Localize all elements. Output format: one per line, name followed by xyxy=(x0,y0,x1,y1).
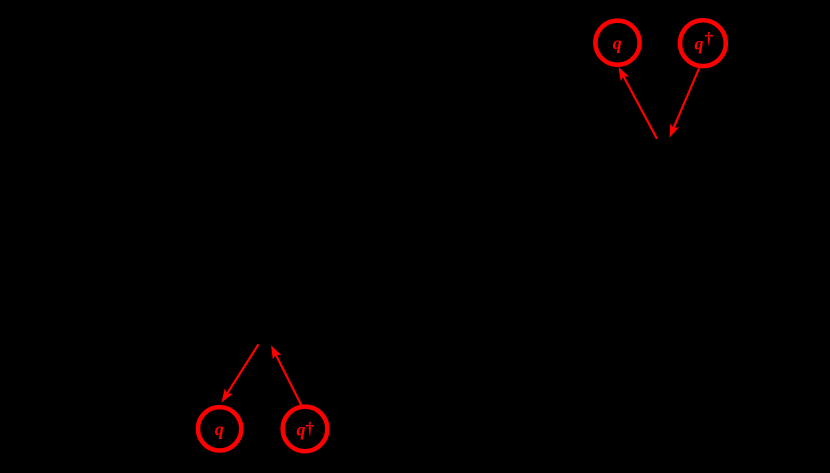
svg-text:†: † xyxy=(705,29,714,48)
arrowhead at q circle (bottom-left group) xyxy=(222,389,233,403)
label q-dagger (bottom-left group) xyxy=(297,419,315,439)
circle around q (bottom-left group) xyxy=(198,407,241,450)
arrow line from q-dagger circle to equation vertex (top-right group) xyxy=(673,69,699,131)
arrow line from equation vertex to q circle (bottom-left group) xyxy=(226,344,259,395)
svg-text:q: q xyxy=(297,419,306,439)
arrow line from q-dagger circle to equation vertex (bottom-left group) xyxy=(275,353,302,406)
svg-text:†: † xyxy=(306,419,315,438)
circle around q-dagger (top-right group) xyxy=(680,20,726,66)
arrowhead at equation vertex (top-right group) xyxy=(669,124,679,138)
arrowhead at equation vertex (bottom-left group) xyxy=(271,345,281,359)
arrowhead at q circle (top-right group) xyxy=(619,67,630,81)
svg-text:q: q xyxy=(613,33,622,53)
arrow line from equation vertex to q circle (top-right group) xyxy=(623,75,658,139)
circle around q-dagger (bottom-left group) xyxy=(283,407,328,452)
svg-text:q: q xyxy=(215,419,224,439)
label q-dagger (top-right group) xyxy=(695,29,714,54)
svg-text:q: q xyxy=(695,33,704,53)
circle around q (top-right group) xyxy=(595,21,639,65)
